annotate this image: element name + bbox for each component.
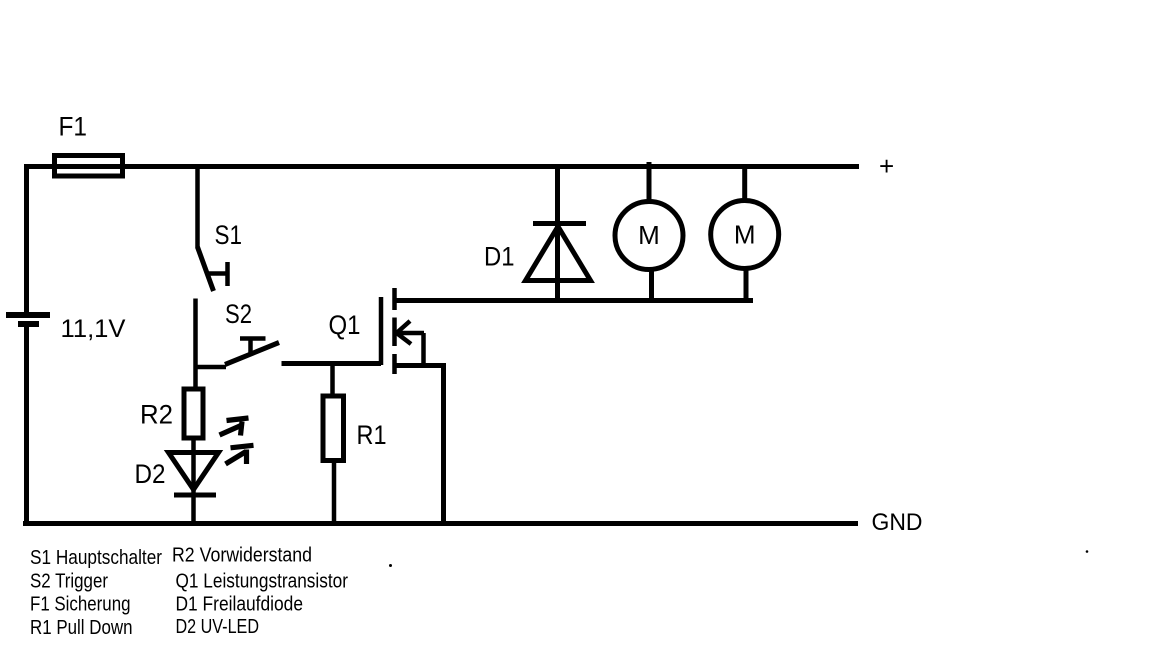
svg-text:S2: S2	[225, 299, 252, 329]
wire Q1 source to GND	[441, 365, 446, 526]
transistor Q1 channel dash body	[392, 318, 397, 347]
wire S2 to Q1 gate	[282, 361, 382, 366]
stray dot 1	[389, 564, 392, 567]
motor M2	[711, 201, 779, 269]
svg-text:R1: R1	[357, 420, 387, 450]
diode D1 triangle	[526, 227, 591, 281]
wire S1 branch	[195, 169, 200, 248]
resistor R2	[184, 389, 203, 438]
svg-text:D1: D1	[484, 242, 515, 272]
wire motor M2 bottom	[744, 268, 749, 303]
svg-text:GND: GND	[872, 509, 923, 536]
svg-text:S1: S1	[215, 220, 243, 250]
LED D2 emission arrow 1	[220, 418, 249, 436]
svg-text:Q1: Q1	[329, 310, 361, 340]
svg-text:R2 Vorwiderstand: R2 Vorwiderstand	[172, 544, 312, 567]
battery BT1 plate long	[6, 312, 50, 318]
svg-text:Q1 Leistungstransistor: Q1 Leistungstransistor	[176, 570, 349, 593]
transistor Q1 body arrow	[397, 321, 425, 344]
svg-text:11,1V: 11,1V	[61, 315, 126, 343]
svg-text:R1 Pull Down: R1 Pull Down	[30, 616, 133, 639]
svg-text:S2 Trigger: S2 Trigger	[30, 570, 108, 593]
svg-text:F1 Sicherung: F1 Sicherung	[30, 593, 131, 616]
LED D2 emission arrow 2	[226, 445, 254, 464]
switch S1 contact	[207, 262, 228, 286]
transistor Q1 gate bar	[379, 297, 384, 365]
stray dot 2	[1086, 550, 1089, 553]
wire left vertical (battery bottom to GND)	[24, 326, 29, 526]
svg-text:D1 Freilaufdiode: D1 Freilaufdiode	[176, 593, 304, 616]
svg-text:M: M	[638, 220, 660, 250]
battery BT1 plate short	[18, 321, 39, 327]
svg-text:D2 UV-LED: D2 UV-LED	[176, 615, 260, 638]
transistor Q1 channel dash drain	[392, 288, 397, 310]
wire motor M2 top	[742, 166, 747, 200]
transistor Q1 channel dash source	[392, 354, 397, 374]
wire motor M1 top	[647, 162, 652, 202]
svg-text:F1: F1	[59, 112, 88, 142]
svg-text:M: M	[734, 220, 756, 250]
wire S2 pivot stub	[196, 365, 227, 370]
LED D2 cathode bar	[174, 493, 216, 498]
svg-text:+: +	[879, 151, 894, 181]
wire top rail (+)	[24, 164, 859, 169]
svg-text:R2: R2	[140, 400, 173, 430]
wire Q1 source lead	[393, 363, 447, 368]
svg-text:S1 Hauptschalter: S1 Hauptschalter	[30, 546, 162, 569]
resistor R1	[323, 396, 344, 461]
switch S2 contact	[240, 339, 266, 355]
wire drain rail	[395, 298, 754, 303]
diode D1 vertical wire	[555, 166, 560, 301]
wire R1 to GND	[332, 461, 337, 526]
diode D1 cathode bar	[533, 221, 586, 226]
fuse F1	[55, 156, 123, 177]
wire GND rail	[23, 521, 858, 526]
switch S1 blade	[198, 247, 214, 291]
wire Q1 body to source	[421, 333, 426, 365]
wire motor M1 bottom	[649, 269, 654, 301]
switch S2 blade	[225, 343, 279, 365]
wire S1 to R2	[193, 299, 198, 389]
wire R1 branch top	[330, 364, 335, 397]
wire left vertical (battery top)	[24, 164, 29, 313]
wire R2 to D2	[191, 438, 196, 523]
motor M1	[615, 202, 683, 270]
LED D2 triangle	[169, 453, 219, 490]
svg-text:D2: D2	[135, 459, 166, 489]
